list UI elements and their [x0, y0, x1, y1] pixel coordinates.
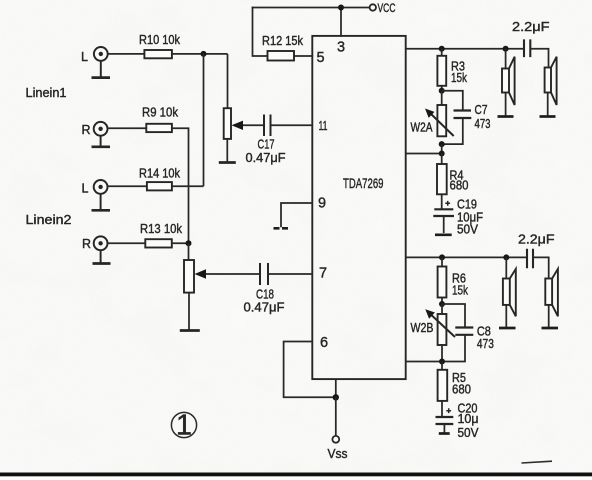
speaker LS3	[505, 257, 507, 278]
svg-text:C8: C8	[477, 324, 491, 338]
capacitor C7 branch	[442, 91, 463, 144]
svg-text:3: 3	[337, 40, 345, 56]
resistor R12	[268, 51, 295, 61]
svg-text:R12 15k: R12 15k	[262, 34, 304, 48]
svg-text:0.47μF: 0.47μF	[246, 151, 286, 165]
wire cap to speaker LS4	[533, 257, 549, 278]
svg-text:50V: 50V	[457, 223, 479, 237]
node OUT1-speaker1	[503, 46, 509, 52]
svg-text:6: 6	[320, 335, 328, 351]
wire pin 9 stub	[281, 203, 312, 227]
svg-text:L: L	[82, 181, 89, 195]
wiper arrow W1A	[241, 124, 264, 126]
mark figure underline	[522, 461, 553, 463]
wire top VCC rail	[253, 7, 370, 9]
resistor R13	[145, 239, 172, 247]
svg-text:473: 473	[475, 117, 491, 131]
wire VCC rail to pin 3	[340, 8, 342, 36]
node OUT2-R6	[439, 254, 445, 260]
svg-text:R: R	[82, 237, 91, 251]
IC U1 TDA7269	[312, 36, 405, 379]
wire R13 out to node B	[172, 242, 189, 244]
node A junction dot	[201, 51, 207, 57]
resistor R10	[144, 50, 172, 58]
wire pin 6 loop	[284, 342, 336, 398]
wire R9 out to node B drop	[172, 128, 189, 243]
resistor R6	[441, 257, 443, 304]
svg-text:L: L	[81, 50, 88, 64]
svg-text:C7: C7	[475, 103, 488, 117]
svg-text:R9 10k: R9 10k	[142, 105, 179, 119]
ground pin 9	[274, 227, 290, 230]
terminal Vss	[332, 436, 339, 443]
resistor R14	[147, 182, 172, 190]
svg-text:473: 473	[477, 337, 494, 351]
wire R10 to node A	[172, 53, 228, 55]
wire node A down to R14 out	[203, 54, 205, 186]
wire node A to pot W1A top	[227, 54, 229, 108]
ground below W1A	[226, 139, 228, 162]
node pin6 junction	[333, 394, 339, 400]
jack J3 L input	[92, 180, 111, 210]
wire to Vss terminal	[335, 397, 337, 436]
jack J1 L input	[92, 47, 111, 78]
svg-text:9: 9	[318, 196, 326, 212]
wire IC bottom stub	[335, 379, 337, 397]
potentiometer W2B	[441, 304, 443, 314]
svg-text:R13 10k: R13 10k	[140, 222, 183, 236]
wire OUT1 rail	[406, 48, 524, 50]
wire R14 out to node A drop	[172, 185, 204, 187]
svg-text:Vss: Vss	[328, 447, 348, 461]
node OUT2-speaker3	[503, 254, 509, 260]
svg-text:1: 1	[176, 409, 192, 441]
wire C17 to pin 11	[271, 124, 313, 126]
capacitor C8 branch	[442, 304, 465, 362]
svg-text:Linein1: Linein1	[26, 86, 67, 100]
wire W2A-R4 node to IC	[406, 144, 442, 153]
svg-text:R: R	[82, 123, 91, 137]
bottom black bar	[0, 473, 592, 477]
node VCC junction	[338, 5, 344, 11]
resistor R5	[441, 362, 443, 418]
wire R12 left drop	[253, 8, 268, 57]
svg-text:7: 7	[319, 266, 327, 282]
resistor R4	[441, 154, 443, 210]
svg-text:W2B: W2B	[411, 321, 434, 335]
svg-text:0.47μF: 0.47μF	[244, 300, 285, 314]
svg-text:5: 5	[317, 50, 325, 66]
svg-text:15k: 15k	[451, 71, 468, 85]
wire cap to speaker LS2	[530, 49, 548, 68]
wire J1 to R10	[108, 53, 145, 55]
svg-text:W2A: W2A	[411, 121, 434, 135]
svg-text:Linein2: Linein2	[26, 213, 72, 227]
resistor R3	[441, 49, 443, 91]
svg-text:R14 10k: R14 10k	[139, 167, 181, 181]
wire OUT2 rail	[406, 256, 527, 258]
node feedback1	[439, 151, 445, 157]
svg-text:680: 680	[450, 179, 469, 193]
svg-text:TDA7269: TDA7269	[343, 175, 384, 191]
svg-text:C18: C18	[256, 287, 274, 301]
capacitor C18	[260, 263, 268, 285]
capacitor 2.2uF bottom	[527, 249, 533, 269]
wire J3 to R14	[108, 185, 147, 187]
potentiometer W1A	[224, 108, 231, 139]
terminal VCC	[370, 4, 376, 10]
speaker LS2	[545, 68, 551, 93]
svg-text:10μ: 10μ	[458, 412, 479, 426]
node OUT1-R3	[439, 46, 445, 52]
wiper arrow W1B	[204, 273, 260, 275]
ground below W1B	[188, 293, 190, 330]
wire J4 to R13	[108, 242, 146, 244]
wire node B to W1B	[188, 243, 190, 260]
jack J2 R input	[92, 122, 111, 147]
svg-text:2.2μF: 2.2μF	[512, 20, 550, 34]
svg-text:C17: C17	[258, 138, 275, 152]
node W2A bottom	[439, 141, 445, 147]
resistor R9	[146, 124, 172, 132]
node R3-W2A	[439, 88, 445, 94]
svg-text:680: 680	[452, 383, 471, 397]
potentiometer W1B	[184, 260, 194, 293]
svg-text:R10 10k: R10 10k	[139, 33, 181, 47]
wire R12 to pin 5	[294, 55, 312, 57]
wire W2B-R5 node to IC	[406, 345, 442, 362]
capacitor 2.2uF top	[524, 39, 530, 57]
svg-text:15k: 15k	[452, 284, 469, 298]
jack J4 R input	[93, 236, 111, 263]
wire C18 to pin 7	[268, 273, 312, 275]
speaker LS4	[545, 279, 552, 305]
node B junction dot	[186, 240, 192, 246]
svg-text:VCC: VCC	[378, 3, 396, 15]
figure number circled 1	[171, 412, 196, 437]
capacitor C17	[264, 115, 271, 137]
svg-text:2.2μF: 2.2μF	[518, 233, 555, 247]
wire J2 to R9	[108, 127, 147, 129]
capacitor C19 polarized	[445, 201, 450, 206]
svg-text:11: 11	[319, 119, 328, 133]
svg-text:C19: C19	[457, 197, 477, 211]
node feedback2	[439, 359, 445, 365]
speaker LS1	[505, 49, 507, 69]
potentiometer W2A	[441, 91, 443, 105]
node R6-W2B	[439, 301, 445, 307]
capacitor C20 polarized	[446, 408, 451, 413]
